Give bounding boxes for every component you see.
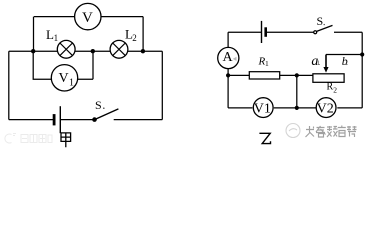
svg-text:V: V [59, 71, 69, 86]
svg-text:S: S [317, 14, 324, 28]
svg-text:V: V [82, 10, 93, 26]
svg-text:a: a [311, 54, 318, 69]
svg-text:S: S [95, 98, 102, 112]
svg-text:V1: V1 [254, 102, 271, 117]
svg-text:A: A [223, 50, 234, 65]
svg-text:1: 1 [54, 33, 59, 43]
svg-text:2: 2 [132, 33, 137, 43]
svg-text:1: 1 [265, 59, 269, 68]
svg-text:V2: V2 [317, 102, 334, 117]
svg-text:2: 2 [333, 85, 337, 94]
svg-text:b: b [342, 54, 348, 68]
svg-text:1: 1 [69, 77, 74, 88]
